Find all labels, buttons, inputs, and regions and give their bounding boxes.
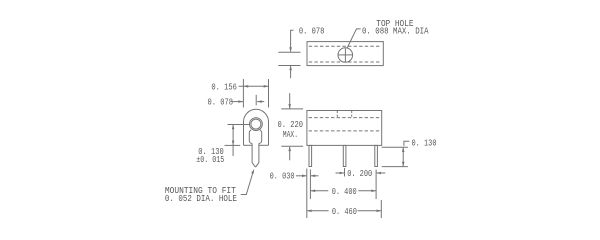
middle pin side view bbox=[343, 145, 346, 166]
hole inner circle bbox=[251, 119, 261, 129]
dim 0.130 side: bracket to text bbox=[404, 141, 409, 146]
dim 0.130 side: down arrowhead bbox=[402, 162, 405, 167]
dim 0.200 left arrowhead bbox=[340, 172, 345, 175]
svg-text:0. 052 DIA. HOLE: 0. 052 DIA. HOLE bbox=[165, 193, 237, 204]
right pin side view bbox=[375, 145, 378, 166]
hole boss outer circle bbox=[250, 118, 263, 131]
svg-text:0. 078: 0. 078 bbox=[208, 97, 234, 108]
dim 0.030 right arrow line bbox=[311, 175, 319, 177]
dim 0.400 dimension line left segment bbox=[310, 190, 328, 192]
front view body (keyhole terminal outline) bbox=[244, 109, 269, 145]
top hole cross vertical bbox=[344, 48, 346, 61]
front view body bottom edge left segment bbox=[244, 144, 253, 146]
ext line R1 right pin bbox=[375, 170, 377, 200]
dim 0.400 dimension line right segment bbox=[358, 190, 376, 192]
side view rectangle bbox=[307, 111, 382, 146]
svg-text:0. 400: 0. 400 bbox=[332, 186, 357, 197]
dim 0.078 top view: ref line bottom edge bbox=[278, 65, 300, 67]
dim 0.220 bottom ref line bbox=[281, 145, 303, 147]
top view lower dashed line bbox=[309, 61, 382, 63]
dim 0.220 lower arrow line bbox=[289, 147, 291, 161]
dim 0.130 side: bottom ref line bbox=[382, 166, 408, 168]
dim 0.200 right arrowhead bbox=[376, 172, 381, 175]
mounting note leader line bbox=[241, 171, 254, 195]
dim 0.200 left arrow line bbox=[336, 172, 345, 174]
dim 0.400 left arrowhead bbox=[310, 190, 315, 193]
ext line B left pin bbox=[309, 170, 311, 200]
top hole cross horizontal bbox=[338, 54, 352, 56]
dim 0.130 side: top ref line bbox=[382, 146, 408, 148]
dim 0.078 top view: bracket to text bbox=[291, 30, 294, 51]
ext line A body left edge bbox=[306, 169, 308, 219]
dim 0.460 dimension line right segment bbox=[358, 210, 382, 212]
dim 0.156 right arrowhead bbox=[264, 85, 269, 88]
side view lower dashed line bbox=[309, 130, 381, 132]
dim 0.220 upper arrow line bbox=[289, 93, 291, 108]
pin stem with shoulder and taper bbox=[249, 130, 261, 167]
dim 0.078 front: left arrowhead bbox=[238, 100, 243, 103]
dim 0.030 left arrow line bbox=[296, 175, 306, 177]
dim 0.030 right arrowhead bbox=[310, 175, 315, 178]
ext line R2 body right edge bbox=[380, 200, 382, 218]
svg-text:±0. 015: ±0. 015 bbox=[196, 154, 224, 165]
dim 0.460 right arrowhead bbox=[377, 210, 382, 213]
svg-text:0. 088 MAX. DIA: 0. 088 MAX. DIA bbox=[362, 26, 429, 37]
side view hidden hole right edge bbox=[351, 111, 353, 118]
dim 0.078 top view: down arrowhead bbox=[289, 47, 292, 52]
side view upper dashed line bbox=[309, 117, 381, 119]
svg-text:0. 030: 0. 030 bbox=[270, 171, 295, 182]
svg-text:0. 200: 0. 200 bbox=[347, 168, 372, 179]
top hole circle bbox=[338, 48, 353, 63]
dim 0.200 right arrow line bbox=[377, 172, 386, 174]
dim 0.078 front: right arrowhead bbox=[257, 100, 262, 103]
dim 0.030 left arrowhead bbox=[302, 175, 307, 178]
top hole leader line bbox=[347, 29, 360, 48]
dim 0.078 top view: ref line hole center bbox=[278, 51, 300, 53]
svg-text:0. 130: 0. 130 bbox=[412, 137, 437, 148]
dim 0.156 dimension line bbox=[239, 85, 269, 87]
top view rectangle bbox=[307, 42, 383, 66]
dim 0.130 down arrowhead bbox=[232, 141, 235, 146]
svg-text:0. 460: 0. 460 bbox=[332, 206, 357, 217]
dim 0.078 front: left arrow line bbox=[232, 101, 243, 103]
dim 0.078 front: right arrow line bbox=[257, 101, 264, 103]
front view body bottom edge right segment bbox=[259, 144, 269, 146]
dim 0.130 vertical dimension line bbox=[232, 125, 234, 157]
dim 0.130 ref tick at body bottom bbox=[225, 144, 241, 146]
dim 0.130 side: vertical dimension line bbox=[402, 147, 404, 166]
dim 0.078 front: center line of hole bbox=[255, 95, 257, 106]
dim 0.156 left extension line bbox=[242, 79, 244, 108]
ext line M middle pin bbox=[344, 168, 346, 177]
dim 0.460 left arrowhead bbox=[307, 210, 312, 213]
left pin side view bbox=[309, 145, 312, 166]
dim 0.156 right extension line bbox=[268, 79, 270, 108]
dim 0.220 top ref line bbox=[281, 108, 303, 110]
svg-text:0. 078: 0. 078 bbox=[299, 26, 325, 37]
dim 0.400 right arrowhead bbox=[371, 190, 376, 193]
dim 0.220 upper arrowhead bbox=[288, 104, 291, 109]
side view hidden hole left edge bbox=[336, 111, 338, 118]
mounting note leader arrowhead bbox=[251, 169, 254, 174]
dim 0.220 lower arrowhead bbox=[288, 146, 291, 151]
dim 0.130 up arrowhead bbox=[232, 125, 235, 130]
dim 0.130 side: up arrowhead bbox=[402, 147, 405, 152]
dim 0.078 top view: lower tail line bbox=[290, 66, 292, 78]
svg-text:MAX.: MAX. bbox=[283, 129, 298, 140]
dim 0.460 dimension line left segment bbox=[307, 210, 329, 212]
dim 0.078 top view: up arrowhead bbox=[289, 66, 292, 71]
dim 0.130 ref line at hole center bbox=[228, 124, 250, 126]
dim 0.156 left arrowhead bbox=[243, 85, 248, 88]
svg-text:0. 156: 0. 156 bbox=[211, 81, 237, 92]
top view upper dashed line bbox=[309, 45, 382, 47]
